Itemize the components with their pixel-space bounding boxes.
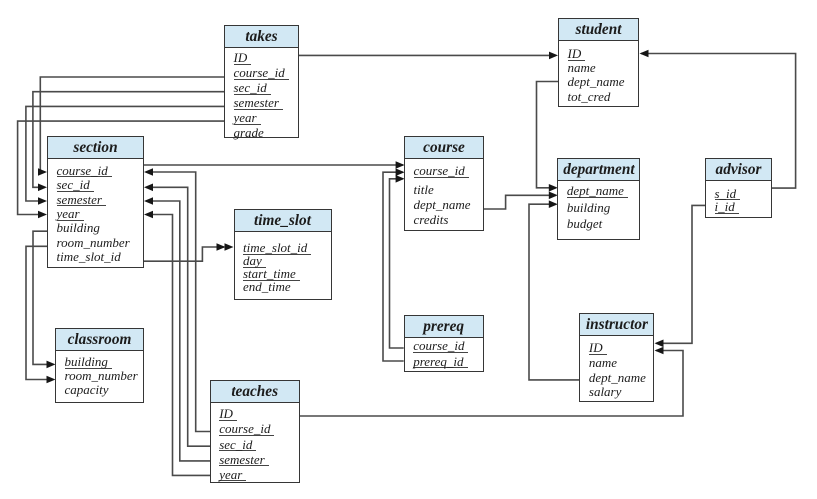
wire teaches.sec_id to section.sec_id — [146, 187, 210, 446]
wire prereq.course_id to course.course_id — [390, 179, 404, 348]
arrowheads into course.course_id — [396, 161, 405, 169]
table course — [404, 136, 484, 231]
table time_slot — [234, 209, 332, 300]
table classroom — [55, 328, 144, 403]
arrowheads into instructor.ID — [655, 340, 664, 348]
wire course.dept_name to department.dept_name — [484, 195, 556, 209]
arrowheads into section right — [144, 168, 153, 176]
wire section.time_slot_id to time_slot — [144, 247, 224, 261]
wire takes.semester to section.semester — [26, 106, 224, 201]
table prereq — [404, 315, 484, 372]
wire section.room_number to classroom.room_number — [26, 246, 53, 379]
table instructor — [579, 313, 654, 402]
wire prereq.prereq_id to course.course_id — [383, 172, 404, 361]
wire section.course_id to course.course_id — [144, 164, 403, 166]
table advisor — [705, 158, 772, 218]
wire teaches.year to section.year — [146, 215, 210, 476]
wire takes.sec_id to section.sec_id — [33, 92, 224, 188]
wire section.building to classroom.building — [33, 231, 53, 364]
double arrowhead into time_slot — [217, 243, 226, 251]
wire takes.year to section.year — [18, 121, 224, 214]
arrowheads into student.ID — [549, 52, 558, 60]
wire takes.course_id to section.course_id — [40, 77, 224, 172]
wire instructor.dept_name to department.dept_name — [529, 204, 579, 380]
wire teaches.ID to instructor.ID — [299, 351, 683, 417]
wire advisor.i_id to instructor.ID — [656, 205, 705, 343]
table section — [47, 136, 144, 268]
table department — [557, 158, 640, 240]
arrowheads into department.dept_name — [549, 184, 558, 192]
wire teaches.course_id to section.course_id — [146, 172, 210, 432]
table student — [558, 18, 639, 107]
arrowheads into classroom — [47, 361, 56, 369]
wire advisor.s_id to student.ID — [641, 54, 796, 189]
wire teaches.semester to section.semester — [146, 201, 210, 461]
wire student.dept_name to department.dept_name — [537, 82, 559, 188]
table teaches — [210, 380, 300, 483]
arrowheads into section left — [38, 168, 47, 176]
wire takes.ID to student.ID — [299, 54, 556, 56]
table takes — [224, 25, 299, 138]
